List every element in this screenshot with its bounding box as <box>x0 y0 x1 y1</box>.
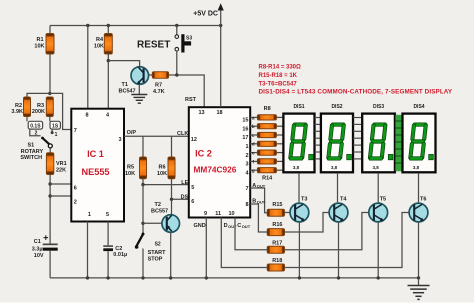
resistor R6 <box>157 136 175 179</box>
resistor R2 <box>11 97 30 117</box>
svg-text:5: 5 <box>106 212 109 218</box>
svg-text:SWITCH: SWITCH <box>20 155 42 161</box>
svg-text:R17: R17 <box>272 240 282 246</box>
svg-text:T3-T6=BC547: T3-T6=BC547 <box>259 81 298 87</box>
svg-text:S1: S1 <box>28 143 35 149</box>
svg-text:OUT: OUT <box>257 184 266 189</box>
svg-text:2: 2 <box>74 200 77 206</box>
resistor R13 (segment f) <box>250 159 283 165</box>
node: contact 1 <box>51 129 58 138</box>
wire DS: node to IC2 pin 6 <box>172 194 189 200</box>
svg-text:C: C <box>237 223 241 229</box>
switch S2 start/stop <box>135 233 166 263</box>
svg-text:3: 3 <box>118 137 121 143</box>
svg-text:10K: 10K <box>157 171 167 177</box>
ground (main, bottom right) <box>408 278 430 300</box>
svg-text:O/P: O/P <box>127 130 137 136</box>
node: junction VR1 / IC1 pin 6 <box>48 182 51 185</box>
ground under T1 <box>131 95 147 104</box>
resistor R8 (segment a) <box>250 115 283 121</box>
wire R3 to 1S box <box>49 117 51 122</box>
svg-text:3,8: 3,8 <box>413 165 420 170</box>
node: junction R4 / T1 collector <box>107 59 110 62</box>
svg-text:R18: R18 <box>272 258 282 264</box>
svg-text:DIS2: DIS2 <box>331 104 342 110</box>
transistor T6 <box>409 197 428 222</box>
node: rail dot T2 emitter <box>169 276 172 279</box>
svg-text:15: 15 <box>242 118 248 124</box>
potentiometer VR1 <box>46 153 66 175</box>
svg-text:S2: S2 <box>155 241 161 247</box>
wire R18 to T6 base <box>285 213 410 268</box>
node: junction R5/LE/S2 <box>141 183 144 186</box>
resistor R17 <box>267 240 284 253</box>
note: red annotation line 4 <box>259 89 453 96</box>
svg-text:+5V DC: +5V DC <box>193 11 218 18</box>
wire node down to T2 base junction <box>142 185 144 234</box>
transistor T3 <box>290 197 309 222</box>
svg-text:MM74C926: MM74C926 <box>194 165 237 175</box>
node: T2 base junction <box>141 222 144 225</box>
wire T1 base to R7 <box>149 74 153 76</box>
switch S1 rotary lever <box>20 137 52 161</box>
wire R2 to 0.1S box <box>26 117 28 122</box>
display DIS3 <box>362 104 395 172</box>
svg-text:3.3µ: 3.3µ <box>32 247 43 253</box>
svg-text:OUT: OUT <box>257 199 266 204</box>
svg-text:B: B <box>252 199 256 205</box>
wire node to T2 collector <box>171 199 173 215</box>
label R14 (bottom of column) <box>262 175 273 181</box>
wire R5 down to LE node <box>142 179 144 185</box>
resistor R3 <box>32 97 53 117</box>
resistor R14 (segment g) <box>250 168 283 174</box>
svg-text:4.7K: 4.7K <box>153 89 165 95</box>
svg-text:22K: 22K <box>56 168 66 174</box>
label RESET <box>137 40 170 51</box>
svg-text:2: 2 <box>35 131 38 137</box>
node: rail dot T3 <box>298 276 301 279</box>
capacitor C2 0.01u <box>103 245 127 258</box>
svg-text:R5: R5 <box>127 165 134 171</box>
note: red annotation line 1 <box>259 65 302 71</box>
svg-text:R7: R7 <box>155 83 162 89</box>
capacitor C1 3.3u 10V <box>32 235 58 259</box>
svg-text:10K: 10K <box>34 44 44 50</box>
svg-text:3: 3 <box>245 162 248 168</box>
wire C1 to ground rail <box>49 251 51 278</box>
range box 0.1S <box>28 121 42 129</box>
resistor R7 <box>152 72 168 95</box>
svg-text:C2: C2 <box>115 246 122 252</box>
svg-text:STOP: STOP <box>148 256 163 262</box>
svg-text:R4: R4 <box>96 37 104 43</box>
svg-text:T1: T1 <box>122 82 128 88</box>
wire R15 to T3 base <box>285 212 291 214</box>
wire IC1 pin 1 to rail <box>87 222 89 278</box>
svg-text:12: 12 <box>191 137 197 143</box>
wire +5V rail to IC2 pin 18 <box>220 26 222 108</box>
resistor R15 <box>267 202 284 216</box>
wire R7 to RST <box>169 75 205 107</box>
svg-text:3,8: 3,8 <box>372 165 379 170</box>
svg-text:10K: 10K <box>94 44 104 50</box>
svg-text:R6: R6 <box>159 165 166 171</box>
svg-text:g: g <box>252 168 255 173</box>
op-amp/timer IC U1: IC 1 NE555 <box>71 109 124 222</box>
svg-text:0.01µ: 0.01µ <box>113 252 127 258</box>
svg-text:9: 9 <box>204 211 207 217</box>
wire to IC1 pin 2 <box>50 195 71 197</box>
svg-text:LE: LE <box>181 180 188 186</box>
node: rail dot T5 <box>377 276 380 279</box>
node: junction S3 / R7 / RST <box>175 73 178 76</box>
svg-text:8: 8 <box>245 202 248 208</box>
wire DIS4 cathode to T6 <box>418 173 420 202</box>
svg-text:7: 7 <box>74 128 77 134</box>
wire DIS1 cathode to T3 <box>298 173 300 202</box>
node: rail junction at IC1 pin8 <box>86 24 89 27</box>
wire Cout: pin 10 to R17 <box>235 218 267 250</box>
wire R1 to node <box>49 54 51 93</box>
svg-text:C1: C1 <box>34 239 41 245</box>
wire Bout: pin 8 to R16 <box>250 199 267 232</box>
svg-text:IC 2: IC 2 <box>195 149 212 159</box>
svg-text:3,8: 3,8 <box>293 165 300 170</box>
svg-text:2: 2 <box>245 153 248 159</box>
wire LE: node to IC2 pin 5 <box>143 180 189 186</box>
svg-text:T2: T2 <box>155 202 161 208</box>
wire DIS3 cathode to T5 <box>377 173 379 202</box>
note: red annotation line 2 <box>259 73 298 79</box>
switch S3 (reset pushbutton) <box>175 26 192 75</box>
wire C2 to rail <box>107 251 109 278</box>
svg-text:T6: T6 <box>420 197 426 203</box>
wire Aout: pin 7 to R15 <box>250 183 267 213</box>
svg-text:T5: T5 <box>380 197 386 203</box>
power +5V DC arrow <box>193 3 224 25</box>
svg-text:13: 13 <box>198 110 204 116</box>
svg-text:200K: 200K <box>32 109 45 115</box>
wire IC1 pin 5 to C2 <box>107 222 109 246</box>
bus pins between DIS3 and DIS4 (green strip) <box>395 115 402 172</box>
svg-text:CLK: CLK <box>177 131 188 137</box>
note: red annotation line 3 <box>259 81 298 87</box>
resistor R18 <box>267 258 284 271</box>
wire T1 emitter to ground <box>138 84 140 94</box>
transistor T2 BC557 <box>151 202 180 233</box>
bus pins between DIS2 and DIS3 <box>353 118 362 159</box>
svg-text:1: 1 <box>245 144 248 150</box>
svg-text:R15-R18 = 1K: R15-R18 = 1K <box>259 73 298 79</box>
node: rail junction at +5V arrow <box>219 24 222 27</box>
svg-text:S3: S3 <box>186 36 192 42</box>
svg-text:R14: R14 <box>262 175 273 181</box>
resistor R1 <box>34 26 54 55</box>
resistor R11 (segment d) <box>250 141 283 147</box>
svg-text:1: 1 <box>55 132 58 138</box>
wire: bottom ground rail <box>50 277 418 279</box>
display DIS4 <box>403 104 436 172</box>
svg-text:GND: GND <box>194 223 206 229</box>
node: junction R6/DS/T2 collector <box>170 198 173 201</box>
svg-text:7: 7 <box>245 186 248 192</box>
svg-text:BC557: BC557 <box>151 209 168 215</box>
counter IC U2: IC 2 MM74C926 <box>189 107 250 217</box>
bottom white margin strip <box>0 303 474 306</box>
range box 1S <box>50 121 60 129</box>
wire junction to T1 collector <box>108 61 139 67</box>
node: rail dot S2 branch <box>141 276 144 279</box>
svg-text:18: 18 <box>216 110 222 116</box>
svg-text:T3: T3 <box>301 197 307 203</box>
resistor R9 (segment b) <box>250 124 283 130</box>
wire to IC1 pin 6 <box>50 183 71 185</box>
svg-text:IC 1: IC 1 <box>87 149 104 159</box>
svg-text:DIS3: DIS3 <box>373 104 384 110</box>
transistor T1 BC547 <box>119 67 149 95</box>
svg-text:NE555: NE555 <box>81 167 109 177</box>
svg-text:11: 11 <box>215 211 221 217</box>
node: rail junction at S3 <box>175 24 178 27</box>
svg-text:3,8: 3,8 <box>331 165 338 170</box>
resistor R5 <box>125 136 147 179</box>
svg-text:b: b <box>252 124 255 129</box>
wire 0.1S box to contact 2 <box>30 129 41 136</box>
node: rail dot at ground <box>417 276 420 279</box>
wire node to R2 and IC1 pin 7 <box>27 93 71 129</box>
svg-text:A: A <box>252 183 256 189</box>
node: rail dot C2 branch <box>106 276 109 279</box>
display DIS2 <box>321 104 353 172</box>
svg-text:1S: 1S <box>52 124 59 130</box>
svg-text:DS: DS <box>181 194 189 200</box>
wire T5 emitter to rail <box>377 222 379 278</box>
svg-text:R16: R16 <box>272 222 282 228</box>
wire R17 to T5 base <box>285 213 369 250</box>
svg-text:D: D <box>224 223 228 229</box>
node: rail dot C1 branch <box>86 276 89 279</box>
svg-text:5: 5 <box>191 185 194 191</box>
svg-text:T4: T4 <box>340 197 347 203</box>
svg-text:RST: RST <box>185 97 197 103</box>
svg-text:d: d <box>252 142 255 147</box>
wire S2 to rail <box>142 249 144 278</box>
svg-text:BC547: BC547 <box>119 89 136 95</box>
resistor R12 (segment e) <box>250 150 283 156</box>
svg-text:R8-R14 = 330Ω: R8-R14 = 330Ω <box>259 65 302 71</box>
wire T3 emitter to rail <box>298 222 300 278</box>
wire: +5V top rail <box>50 25 221 27</box>
wire DIS2 cathode to T4 <box>337 173 339 202</box>
svg-text:6: 6 <box>191 199 194 205</box>
wire IC1 pin 8 to rail <box>87 26 89 109</box>
svg-text:DIS1: DIS1 <box>293 104 304 110</box>
resistor R16 <box>267 222 284 236</box>
wire R4 to IC1 pin 4 <box>107 54 109 109</box>
node: junction / IC1 pin 2 <box>48 194 51 197</box>
svg-text:10V: 10V <box>34 253 44 259</box>
svg-text:1: 1 <box>88 212 91 218</box>
wire VR1 down to C1 <box>49 175 51 244</box>
svg-text:R1: R1 <box>36 37 43 43</box>
wire Dout: pin 11 to R18 <box>221 218 267 268</box>
svg-text:16: 16 <box>242 126 248 132</box>
wire IC2 pin 9 GND to rail <box>194 218 207 278</box>
wire O/P: IC1 pin3 to IC2 pin12 CLK <box>124 130 189 137</box>
node: rail junction at R4 <box>107 24 110 27</box>
label RST <box>185 97 197 103</box>
node: rail dot IC2 GND <box>205 276 208 279</box>
svg-text:3.9K: 3.9K <box>11 109 23 115</box>
svg-text:DIS4: DIS4 <box>413 104 424 110</box>
svg-text:OUT: OUT <box>242 224 251 229</box>
node: rail dot T4 <box>337 276 340 279</box>
wire R16 to T4 base <box>285 213 330 233</box>
svg-text:OUT: OUT <box>228 224 237 229</box>
svg-text:10: 10 <box>228 211 234 217</box>
transistor T4 <box>329 197 348 222</box>
label R8 (top of segment resistor column) <box>264 106 271 112</box>
resistor R10 (segment c) <box>250 132 283 138</box>
svg-text:17: 17 <box>242 135 248 141</box>
svg-text:10K: 10K <box>125 171 135 177</box>
wire T2 base <box>143 222 162 224</box>
transistor T5 <box>369 197 388 222</box>
svg-text:DIS1-DIS4 = LT543 COMMON-CATHO: DIS1-DIS4 = LT543 COMMON-CATHODE, 7-SEGM… <box>259 89 453 96</box>
display DIS1 <box>283 104 314 172</box>
resistor R4 <box>94 26 112 55</box>
bus pins between DIS1 and DIS2 <box>315 118 321 159</box>
svg-text:6: 6 <box>74 186 77 192</box>
svg-text:START: START <box>148 250 167 256</box>
wire T4 emitter to rail <box>338 222 340 278</box>
wire R6 down to DS node <box>171 179 173 200</box>
node: contact 2 <box>35 131 38 137</box>
wire T2 emitter to rail <box>170 232 172 278</box>
svg-text:R15: R15 <box>272 202 282 208</box>
svg-text:RESET: RESET <box>137 40 170 51</box>
wire S1 pole to VR1 <box>49 148 51 153</box>
svg-text:8: 8 <box>85 113 88 119</box>
svg-text:R8: R8 <box>264 106 271 112</box>
wire T6 emitter to rail <box>418 222 420 278</box>
svg-text:VR1: VR1 <box>56 161 67 167</box>
svg-text:0.1S: 0.1S <box>30 124 41 130</box>
node A: R1/R2/R3 junction <box>48 92 51 95</box>
